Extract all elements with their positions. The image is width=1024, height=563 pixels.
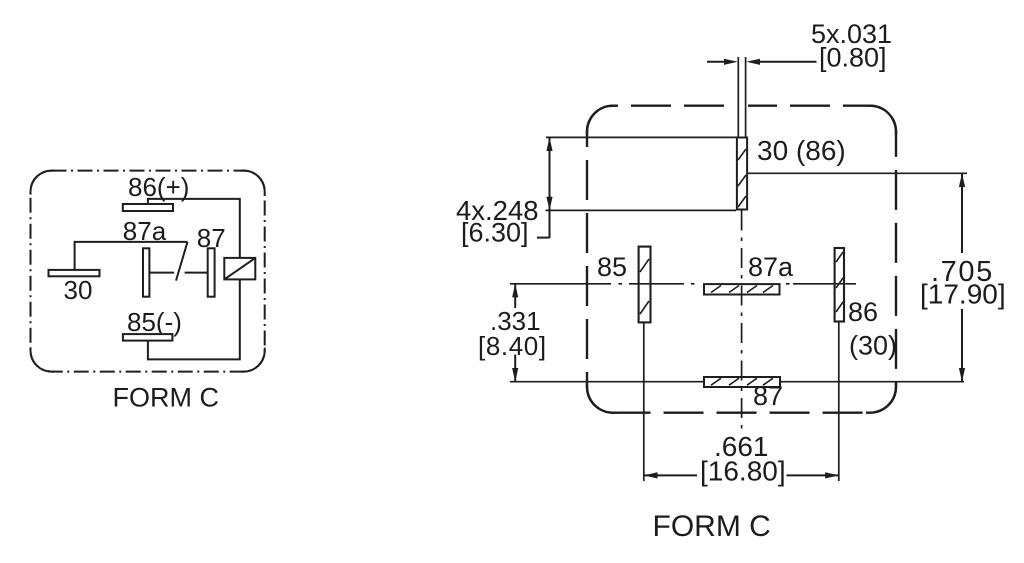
label (30) [849, 331, 897, 361]
wire coil bottom to 85 terminal [148, 279, 240, 359]
label 85 [597, 252, 627, 282]
label [17.90] [920, 279, 1006, 310]
vertical center line through pins 30/87a/87 (dash-dot) [741, 211, 743, 434]
svg-text:FORM C: FORM C [653, 510, 771, 543]
contact 87 bar [208, 248, 215, 296]
relay body outline (dashed), bottom view [587, 106, 896, 413]
svg-text:86: 86 [848, 297, 878, 327]
pin 86 blade with hatching [835, 248, 844, 322]
label 85(-) [127, 307, 182, 337]
label 4x.248 [456, 195, 539, 226]
svg-text:[17.90]: [17.90] [920, 279, 1006, 310]
dimension 5x.031 [0.80] blade thickness: extension lines [732, 57, 748, 138]
pin 87 blade with hatching [704, 377, 780, 387]
caption FORM C (left) [113, 383, 219, 413]
terminal 30 blade bar [49, 270, 100, 276]
label .705 [931, 256, 994, 288]
svg-text:30: 30 [64, 275, 93, 305]
dimension .661 line with arrows [644, 472, 839, 478]
dimension 5x.031 arrows and leader [707, 59, 817, 65]
label 30 (86) [757, 135, 846, 166]
relay coil [224, 258, 255, 280]
svg-text:[16.80]: [16.80] [700, 455, 786, 486]
terminal 85 blade bar [123, 334, 172, 341]
label 86 (pin) [848, 297, 878, 327]
caption FORM C (right) [653, 510, 771, 543]
contact stub to 87 bar [185, 272, 208, 274]
label [6.30] [461, 218, 529, 248]
label [16.80] [700, 455, 786, 486]
label 87a (pin) [748, 252, 794, 282]
svg-text:85(-): 85(-) [127, 307, 182, 337]
relay enclosure outline (dash-dot border), left schematic [31, 171, 265, 372]
contact 87a bar [143, 248, 149, 296]
terminal 86 blade bar [123, 204, 173, 211]
label .331 [490, 306, 541, 336]
dimension 4x.248 line with arrows and leader [537, 137, 553, 238]
label 30 [64, 275, 93, 305]
svg-text:85: 85 [597, 252, 627, 282]
label 87a [123, 216, 167, 246]
label .661 [714, 431, 769, 462]
armature (movable contact arm) [176, 242, 188, 281]
middle row center line left solid extension [510, 283, 611, 285]
dimension .661 extension lines [644, 322, 839, 482]
dimension 4x.248 extension lines [546, 137, 738, 210]
dimension .705 extension line (top, from pin 30 center) [748, 172, 968, 174]
label [8.40] [478, 331, 547, 361]
dimension .705 extension line (bottom row center) [510, 381, 964, 383]
label 86(+) coil terminal [128, 172, 189, 202]
svg-text:[0.80]: [0.80] [819, 42, 887, 72]
middle row center line dash-dot segments crossing pins [619, 283, 857, 285]
dimension .331 line with arrows [512, 284, 518, 382]
pin 87a blade with hatching [704, 284, 780, 294]
svg-text:86(+): 86(+) [128, 172, 189, 202]
pin 30(86) top blade with hatching [737, 138, 747, 210]
svg-text:[8.40]: [8.40] [478, 331, 547, 361]
dimension .705 line with arrows [959, 173, 965, 381]
svg-text:87a: 87a [748, 252, 794, 282]
label 87 [197, 223, 226, 253]
wire 86 terminal to coil top [148, 199, 240, 258]
svg-text:30 (86): 30 (86) [757, 135, 846, 166]
contact stub from 87a bar [149, 272, 174, 274]
wire 30 terminal to armature pivot [75, 242, 188, 270]
label [0.80] [819, 42, 887, 72]
svg-text:(30): (30) [849, 331, 897, 361]
svg-text:87: 87 [753, 381, 783, 411]
svg-text:[6.30]: [6.30] [461, 218, 529, 248]
label 87 (pin) [753, 381, 783, 411]
pin 85 blade with hatching [639, 247, 651, 323]
svg-text:FORM C: FORM C [113, 383, 219, 413]
label 5x.031 [811, 19, 892, 49]
